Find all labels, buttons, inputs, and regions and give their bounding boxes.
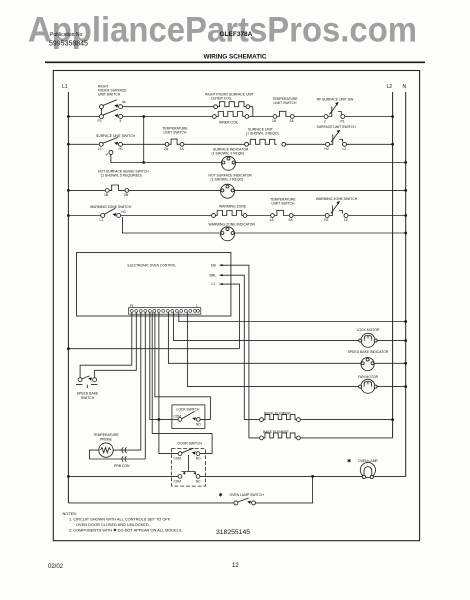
svg-text:COM: COM	[174, 479, 182, 483]
svg-text:FAN MOTOR: FAN MOTOR	[358, 375, 379, 379]
svg-text:02/02: 02/02	[48, 564, 64, 570]
wire: coils rejoin	[249, 107, 273, 117]
svg-text:SPEED BAKE INDICATOR: SPEED BAKE INDICATOR	[348, 350, 389, 354]
svg-text:P1: P1	[341, 119, 345, 123]
svg-text:COM: COM	[174, 456, 182, 460]
svg-text:UNIT SWITCH: UNIT SWITCH	[98, 93, 121, 97]
part number 318255145	[216, 529, 250, 536]
resistor: temperature probe	[89, 433, 145, 459]
svg-text:L2: L2	[343, 147, 347, 151]
terminal strip P1	[129, 304, 201, 314]
node L1 label	[62, 84, 68, 90]
switch: surface unit switch right (H2/L2)	[316, 125, 394, 151]
net label L1 with arrow	[212, 282, 231, 286]
svg-text:P: P	[106, 153, 109, 157]
notes	[63, 511, 183, 533]
svg-text:OUTER COIL: OUTER COIL	[211, 97, 232, 101]
thermal switch: temperature limit switch row2 (2A/1A)	[162, 127, 244, 151]
svg-text:1A: 1A	[270, 218, 275, 222]
svg-text:NO: NO	[196, 423, 201, 427]
svg-text:N: N	[403, 84, 407, 90]
wire: L1 bus horizontal feed	[67, 347, 239, 350]
wire: upper branch to outer coil	[123, 106, 214, 108]
wire: L1 bus vertical	[67, 92, 69, 503]
svg-text:LIMIT SWITCH: LIMIT SWITCH	[274, 101, 297, 105]
switch: warming zone switch right (H2/L2)	[316, 197, 407, 222]
motor: lock motor	[357, 328, 407, 347]
wire: row3 L1 to hot surface sense switch	[67, 189, 105, 192]
svg-text:H1: H1	[122, 210, 126, 214]
wire: pin wire to lock switch NO	[155, 312, 211, 420]
heater: right front surface unit outer coil	[205, 93, 254, 109]
svg-text:4: 4	[120, 119, 122, 123]
svg-text:INNER COIL: INNER COIL	[219, 121, 239, 125]
node L2 label	[387, 84, 393, 90]
wire: row4 L1 to warming zone switch	[67, 214, 101, 217]
lamp: warming zone indicator	[209, 223, 408, 241]
wire: pin wire to door switch NO	[152, 312, 212, 454]
svg-text:4a: 4a	[122, 100, 126, 104]
wire: pin wire to speed bake switch pole 1	[80, 312, 132, 378]
switch: right front surface unit switch (DPST P2/4/4a)	[98, 85, 128, 123]
svg-text:2: 2	[324, 119, 326, 123]
svg-text:1. CIRCUIT SHOWN WITH ALL CON: 1. CIRCUIT SHOWN WITH ALL CONTROLS SET T…	[69, 517, 171, 522]
switch: oven lamp switch	[68, 475, 314, 505]
svg-text:NOTES:: NOTES:	[63, 511, 77, 516]
heater: inner coil	[212, 112, 248, 125]
svg-text:P2: P2	[98, 119, 102, 123]
footer	[48, 563, 239, 570]
heater: broil element	[260, 412, 394, 422]
wire: pin wire to neutral	[179, 312, 407, 323]
svg-text:(1 SHOWN, 3 REQD): (1 SHOWN, 3 REQD)	[246, 132, 279, 136]
svg-text:✱: ✱	[219, 492, 223, 498]
switch: speed bake switch	[76, 376, 99, 400]
svg-text:(1 SHOWN, 5 REQUIRED): (1 SHOWN, 5 REQUIRED)	[101, 174, 142, 178]
svg-text:BRL: BRL	[210, 273, 217, 277]
wire: pin wire to lock switch COM	[150, 312, 178, 420]
svg-text:LIMIT SWITCH: LIMIT SWITCH	[164, 131, 187, 135]
svg-text:2B: 2B	[124, 193, 129, 197]
svg-text:OVEN DOOR CLOSED AND UNLOCKED.: OVEN DOOR CLOSED AND UNLOCKED.	[76, 522, 150, 527]
svg-text:(1 SHOWN, 2 REQD): (1 SHOWN, 2 REQD)	[211, 178, 244, 182]
thermal switch: hot surface sense switch (1B/2B)	[98, 170, 221, 198]
svg-text:SWITCH: SWITCH	[81, 396, 95, 400]
svg-text:LIMIT SWITCH: LIMIT SWITCH	[272, 202, 295, 206]
wire: pin wire to speed bake indicator	[168, 312, 361, 363]
wire: L2 bus vertical	[392, 92, 394, 438]
lamp: hot surface indicator	[209, 174, 408, 199]
svg-text:2A: 2A	[290, 119, 295, 123]
switch: surface unit switch (L1/H1/P)	[96, 134, 165, 157]
watermark AppliancePartsPros.com	[28, 11, 417, 50]
svg-text:LOCK SWITCH: LOCK SWITCH	[177, 407, 201, 411]
svg-text:✱: ✱	[347, 459, 351, 465]
svg-text:WARMING ZONE: WARMING ZONE	[219, 205, 247, 209]
svg-text:(1 SHOWN, 2 REQD): (1 SHOWN, 2 REQD)	[212, 152, 245, 156]
wire: warming indicator branch	[123, 217, 221, 233]
svg-text:12: 12	[232, 563, 239, 569]
wire: row1 main L1 to switch	[67, 115, 99, 118]
svg-text:DB: DB	[211, 264, 216, 268]
svg-text:WIRING SCHEMATIC: WIRING SCHEMATIC	[203, 54, 266, 61]
svg-text:RF SURFACE UNIT SW: RF SURFACE UNIT SW	[317, 98, 354, 102]
wire: row2 L1 to switch	[67, 143, 99, 146]
svg-text:1B: 1B	[104, 193, 109, 197]
header publication text	[49, 31, 253, 48]
wire: pin wire to probe lead 1	[140, 312, 142, 450]
svg-text:SURFACE UNIT SWITCH: SURFACE UNIT SWITCH	[96, 134, 136, 138]
switch box: lock switch	[172, 405, 205, 429]
svg-text:WARMING ZONE INDICATOR: WARMING ZONE INDICATOR	[209, 223, 256, 227]
svg-text:2. COMPONENTS WITH ✱ DO NOT: 2. COMPONENTS WITH ✱ DO NOT APPEAR ON AL…	[69, 527, 183, 532]
wire: pin wire to speed bake switch pole 2	[95, 312, 137, 378]
wire: door NC to oven lamp	[200, 475, 406, 477]
svg-text:WARMING ZONE SWITCH: WARMING ZONE SWITCH	[90, 205, 132, 209]
svg-text:BAKE ELEMENT: BAKE ELEMENT	[263, 430, 289, 434]
heater: bake element	[260, 430, 393, 440]
wire: tap from row1 down to indicator branch	[142, 115, 145, 164]
svg-text:L1: L1	[98, 147, 102, 151]
lamp: oven lamp	[347, 459, 379, 479]
IC box: electronic oven control	[77, 253, 231, 317]
node N label	[403, 84, 407, 90]
svg-text:WARMING ZONE SWITCH: WARMING ZONE SWITCH	[316, 197, 358, 201]
svg-text:H1: H1	[119, 147, 123, 151]
thermal switch: temperature limit switch row4 (1A/2A)	[270, 198, 326, 223]
svg-text:SURFACE UNIT SWITCH: SURFACE UNIT SWITCH	[316, 125, 356, 129]
net label DB with arrow	[211, 264, 231, 268]
connector: probe connector PRB CON	[114, 447, 130, 468]
svg-text:L1: L1	[62, 84, 68, 90]
schematic border frame	[53, 71, 419, 541]
wire: pin wire to probe lead 2	[144, 312, 146, 459]
svg-text:ELECTRONIC OVEN CONTROL: ELECTRONIC OVEN CONTROL	[128, 264, 177, 268]
svg-text:2A: 2A	[289, 218, 294, 222]
svg-text:PROBE: PROBE	[100, 437, 113, 441]
switch box: door switch	[172, 441, 206, 486]
svg-text:GLEF378A: GLEF378A	[220, 31, 253, 38]
wire: pin wire to fan motor	[187, 312, 359, 387]
switch: RF surface unit sw (2/P1)	[317, 98, 394, 124]
switch: warming zone switch left (L1/H1)	[90, 205, 212, 222]
wire: L1 terminal to L1 bus feed	[231, 284, 240, 349]
svg-text:318255145: 318255145	[216, 529, 250, 536]
svg-text:DOOR SWITCH: DOOR SWITCH	[178, 441, 203, 445]
heater: surface unit coil	[245, 128, 326, 147]
lamp: speed bake indicator	[348, 350, 407, 371]
wire: BRL to broil element	[231, 275, 260, 419]
svg-text:L2: L2	[387, 84, 393, 90]
svg-text:1A: 1A	[180, 147, 185, 151]
svg-text:H2: H2	[325, 147, 329, 151]
svg-text:L2: L2	[344, 218, 348, 222]
wire: surface indicator branch from P contact	[111, 154, 222, 162]
svg-text:OVEN LAMP SWITCH: OVEN LAMP SWITCH	[230, 493, 265, 497]
svg-text:2A: 2A	[164, 147, 169, 151]
svg-text:NC: NC	[196, 479, 201, 483]
net label BRL with arrow	[210, 273, 231, 277]
wire: pin wire to door switch COM	[158, 312, 179, 454]
wire: DB to bake element	[231, 265, 260, 438]
svg-text:LOCK MOTOR: LOCK MOTOR	[357, 328, 380, 332]
wire: L1 to door switch lower COM	[67, 475, 178, 478]
wire: N bus vertical	[405, 92, 407, 477]
title WIRING SCHEMATIC	[45, 54, 425, 63]
svg-text:NO: NO	[196, 456, 201, 460]
heater: warming zone element	[212, 205, 271, 218]
svg-text:5995358845: 5995358845	[49, 41, 88, 48]
svg-text:P1: P1	[130, 304, 134, 308]
svg-text:PRB CON: PRB CON	[114, 464, 130, 468]
thermal switch: temperature limit switch row1 (1A/2A)	[272, 97, 324, 123]
svg-text:1A: 1A	[272, 119, 277, 123]
svg-text:Publication No:: Publication No:	[50, 32, 84, 38]
svg-text:H2: H2	[324, 218, 328, 222]
svg-text:L1: L1	[212, 282, 216, 286]
wire: row1 to inner coil	[123, 116, 213, 118]
lamp: surface indicator	[212, 148, 408, 171]
svg-text:L1: L1	[100, 218, 104, 222]
motor: fan motor	[358, 375, 407, 394]
svg-text:1: 1	[196, 304, 198, 308]
wire: pin wire to lock motor	[174, 312, 360, 341]
